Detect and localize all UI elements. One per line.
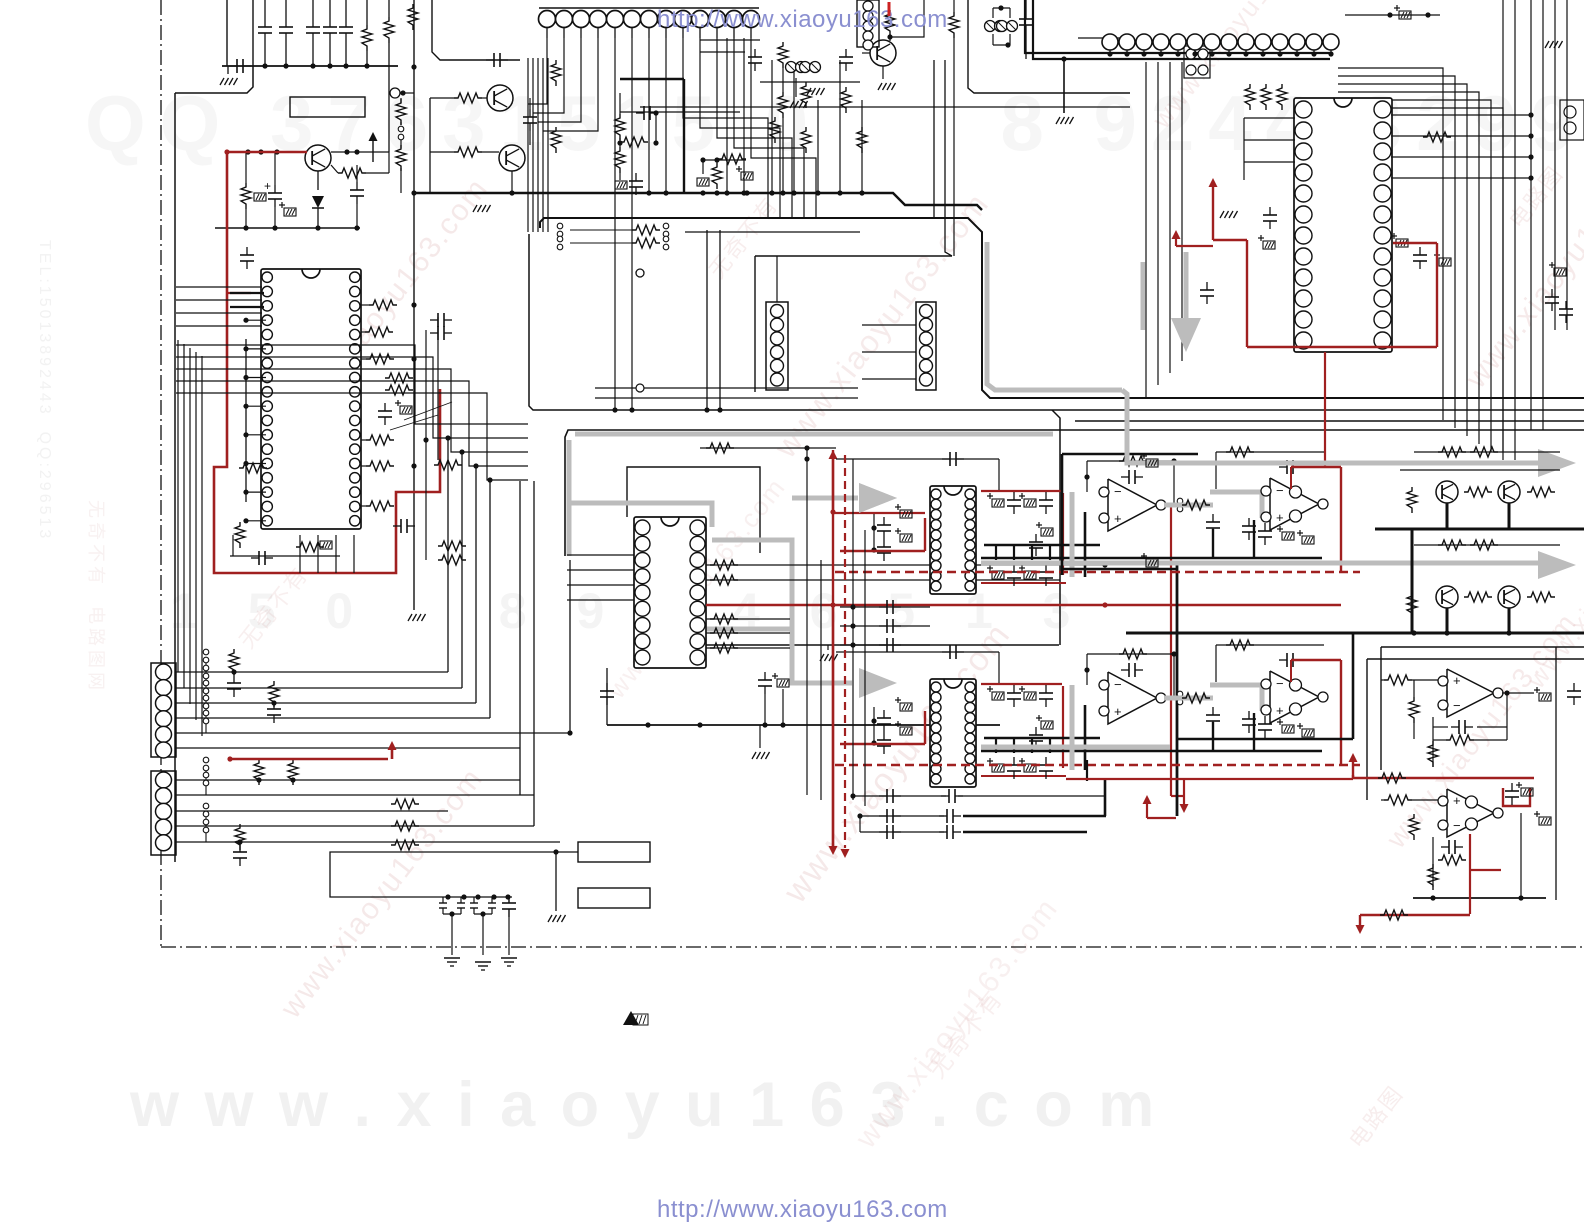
svg-text:+: + xyxy=(264,179,271,193)
svg-text:−: − xyxy=(1453,818,1461,833)
svg-text:+: + xyxy=(1453,793,1461,808)
svg-text:−: − xyxy=(1114,677,1122,692)
svg-text:+: + xyxy=(1276,510,1284,525)
svg-text:+: + xyxy=(1114,704,1122,719)
svg-text:无奇不有 电路图网: 无奇不有 电路图网 xyxy=(86,500,106,694)
svg-text:TEL:15013892443 QQ:296513: TEL:15013892443 QQ:296513 xyxy=(36,240,53,541)
svg-text:−: − xyxy=(1276,483,1284,498)
svg-text:−: − xyxy=(1276,676,1284,691)
svg-text:http://www.xiaoyu163.com: http://www.xiaoyu163.com xyxy=(657,6,948,33)
svg-text:−: − xyxy=(1453,698,1461,713)
svg-text:+: + xyxy=(1453,673,1461,688)
svg-text:−: − xyxy=(1114,484,1122,499)
svg-text:http://www.xiaoyu163.com: http://www.xiaoyu163.com xyxy=(657,1196,948,1223)
svg-text:+: + xyxy=(1114,511,1122,526)
svg-text:w w w . x i a o y u 1 6 3 . c: w w w . x i a o y u 1 6 3 . c o m xyxy=(129,1070,1158,1140)
svg-text:+: + xyxy=(1276,703,1284,718)
